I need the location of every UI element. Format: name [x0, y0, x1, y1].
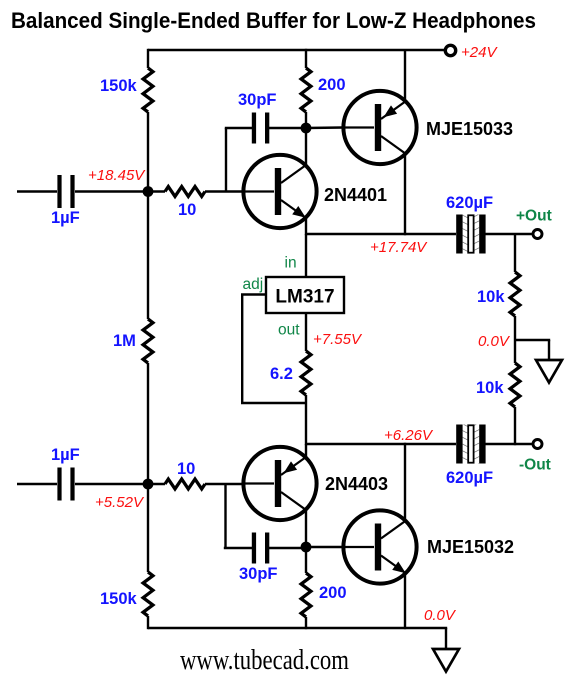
terminal -Out [533, 440, 542, 449]
wire 30pF top branch vertical [225, 128, 227, 193]
capacitor 1uF (top input) [57, 175, 74, 208]
svg-text:+Out: +Out [516, 208, 552, 225]
resistor 200 (top) [301, 68, 311, 112]
wire top input lead [17, 190, 57, 192]
wire LM317 in [305, 234, 307, 277]
svg-text:www.tubecad.com: www.tubecad.com [180, 645, 349, 676]
wire ground stub mid [548, 340, 550, 360]
wire 30pF bottom left lead [224, 547, 252, 549]
power terminal +24V [445, 45, 455, 55]
wire 10 to 2N4403 base [205, 483, 243, 485]
wire left column top stub [147, 49, 149, 68]
svg-text:in: in [285, 255, 297, 272]
svg-text:150k: 150k [100, 590, 138, 608]
label 150k top [100, 77, 138, 95]
label +5.52V [95, 494, 145, 511]
capacitor 620uF (bottom) [456, 425, 485, 464]
svg-text:-Out: -Out [519, 457, 551, 474]
label 2N4401 [324, 185, 387, 205]
resistor 10k (lower) [510, 363, 520, 407]
label 10 top [178, 201, 196, 219]
svg-text:10k: 10k [476, 379, 504, 397]
wire ground stub bottom [445, 628, 447, 649]
resistor 200 (bottom) [301, 573, 311, 617]
resistor 150k (bottom) [143, 572, 153, 616]
wire mid node to ground [515, 339, 550, 341]
terminal +Out [533, 230, 542, 239]
svg-text:MJE15033: MJE15033 [426, 119, 513, 139]
label 10k upper [477, 288, 505, 306]
svg-text:+24V: +24V [461, 44, 498, 61]
wire ground rail (0.0V) [148, 627, 447, 629]
ground symbol bottom [433, 649, 459, 672]
label 0.0V mid [478, 333, 511, 350]
label 200 bottom [319, 584, 347, 602]
wire 1uF bottom to node [75, 483, 165, 485]
label 1M [113, 332, 136, 350]
wire +24V top rail [148, 49, 445, 51]
wire LM317 adj vertical [241, 295, 243, 404]
transistor Q1 2N4401 [243, 155, 317, 228]
wire -Out rail (+6.26V) [306, 443, 456, 445]
wire LM317 out [305, 313, 307, 351]
wire 10k junction segment [514, 316, 516, 363]
svg-text:out: out [278, 322, 300, 339]
resistor 10 (top) [165, 187, 205, 197]
label +Out [516, 208, 552, 225]
label 0.0V bottom [424, 607, 457, 624]
svg-text:0.0V: 0.0V [424, 607, 457, 624]
svg-text:200: 200 [319, 584, 347, 602]
node bottom input junction [143, 479, 154, 490]
label out (LM317 pin) [278, 322, 300, 339]
svg-text:6.2: 6.2 [270, 365, 293, 383]
wire 30pF bottom right lead [267, 547, 306, 549]
svg-text:+18.45V: +18.45V [88, 167, 146, 184]
wire 200 top stub [305, 49, 307, 68]
label 1uF bottom [51, 446, 80, 464]
label LM317 [275, 287, 334, 308]
resistor 150k (top) [143, 68, 153, 112]
label +17.74V [370, 239, 428, 256]
label 200 top [318, 76, 346, 94]
label 6.2 [270, 365, 293, 383]
svg-text:+5.52V: +5.52V [95, 494, 145, 511]
wire 150k bottom to ground rail [147, 616, 149, 629]
label +18.45V [88, 167, 146, 184]
capacitor 30pF (bottom) [252, 533, 269, 564]
label -Out [519, 457, 551, 474]
node top input junction [143, 186, 154, 197]
label +7.55V [313, 331, 363, 348]
wire 1M to lower input node [147, 363, 149, 572]
svg-text:10: 10 [178, 201, 196, 219]
wire MJE15033 emitter to +24V [404, 50, 406, 101]
node 2N4401 collector junction [301, 123, 312, 134]
svg-text:200: 200 [318, 76, 346, 94]
wire 150k to input node [147, 112, 149, 319]
label 620uF bottom [446, 469, 493, 487]
wire 30pF bottom branch vertical [224, 483, 226, 549]
svg-text:+6.26V: +6.26V [384, 427, 434, 444]
resistor 1M [143, 319, 153, 363]
svg-text:+17.74V: +17.74V [370, 239, 428, 256]
svg-text:620µF: 620µF [446, 194, 493, 212]
svg-text:0.0V: 0.0V [478, 333, 511, 350]
label in (LM317 pin) [285, 255, 297, 272]
label MJE15033 [426, 119, 513, 139]
wire LM317 adj bottom [241, 402, 306, 404]
wire +Out to 10k [514, 234, 516, 272]
label 30pF bottom [239, 565, 278, 583]
wire 2N4403 collector [305, 510, 307, 548]
wire 10k to -Out rail [514, 407, 516, 445]
title text [11, 8, 536, 33]
label MJE15032 [427, 537, 514, 557]
transistor Q4 MJE15032 [343, 510, 417, 583]
wire MJE15032 emitter [404, 574, 406, 629]
wire 620uF to +Out [486, 233, 533, 235]
wire 2N4403 emitter [305, 444, 307, 458]
label 10 bottom [177, 460, 195, 478]
wire +Out rail (+17.74V) [306, 233, 456, 235]
op-amp U1 LM317 regulator box [266, 277, 344, 313]
wire 2N4401 collector [305, 128, 307, 167]
wire 1uF to node [75, 190, 165, 192]
wire LM317 adj horizontal [241, 293, 267, 295]
label 150k bottom [100, 590, 138, 608]
svg-text:150k: 150k [100, 77, 138, 95]
svg-text:adj: adj [243, 276, 264, 293]
capacitor 620uF (top) [456, 215, 485, 254]
svg-text:30pF: 30pF [239, 565, 278, 583]
label 10k lower [476, 379, 504, 397]
label +6.26V [384, 427, 434, 444]
svg-text:10k: 10k [477, 288, 505, 306]
wire 200 bottom to rail [305, 617, 307, 629]
svg-text:Balanced Single-Ended Buffer f: Balanced Single-Ended Buffer for Low-Z H… [11, 8, 536, 33]
svg-text:2N4403: 2N4403 [325, 474, 388, 494]
wire 30pF top left lead [225, 127, 252, 129]
transistor Q3 2N4403 [243, 447, 317, 520]
wire 200 bottom stub [305, 547, 307, 573]
svg-text:2N4401: 2N4401 [324, 185, 387, 205]
wire 30pF top right lead [267, 127, 306, 129]
wire 620uF to -Out [486, 443, 533, 445]
wire MJE15033 base [306, 126, 343, 129]
svg-text:10: 10 [177, 460, 195, 478]
svg-text:MJE15032: MJE15032 [427, 537, 514, 557]
wire MJE15033 collector [404, 155, 406, 236]
wire 200 to junction [305, 112, 307, 128]
svg-text:620µF: 620µF [446, 469, 493, 487]
capacitor 30pF (top) [252, 113, 269, 144]
wire 6.2 to lower rail [305, 395, 307, 445]
svg-text:+7.55V: +7.55V [313, 331, 363, 348]
label 1uF top [51, 209, 80, 227]
footer www.tubecad.com [180, 645, 349, 676]
svg-text:30pF: 30pF [238, 91, 277, 109]
label adj (LM317 pin) [243, 276, 264, 293]
wire MJE15032 collector [404, 443, 406, 520]
resistor 10k (upper) [510, 272, 520, 316]
svg-text:1M: 1M [113, 332, 136, 350]
transistor Q2 MJE15033 [343, 91, 417, 164]
resistor 6.2 [301, 351, 311, 395]
wire 2N4401 emitter [305, 218, 307, 236]
wire 10 to 2N4401 base [205, 190, 243, 192]
resistor 10 (bottom) [165, 479, 205, 489]
label +24V [461, 44, 498, 61]
wire MJE15032 base [306, 546, 343, 548]
wire bottom input lead [17, 483, 57, 485]
ground symbol mid [536, 360, 562, 383]
label 2N4403 [325, 474, 388, 494]
node 2N4403 collector junction [301, 542, 312, 553]
label 620uF top [446, 194, 493, 212]
capacitor 1uF (bottom input) [57, 468, 74, 501]
svg-text:1µF: 1µF [51, 446, 80, 464]
svg-text:1µF: 1µF [51, 209, 80, 227]
svg-text:LM317: LM317 [275, 287, 334, 308]
label 30pF top [238, 91, 277, 109]
